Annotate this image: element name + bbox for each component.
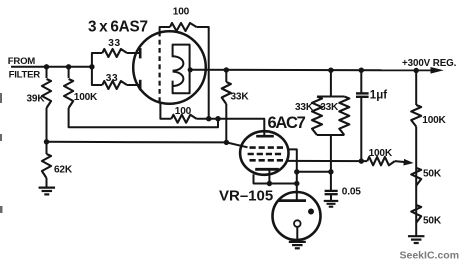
junction dot 1uf rail (359, 68, 364, 73)
wire pair top bracket (317, 96, 344, 98)
wire grid top lead (160, 27, 170, 32)
junction dot 33K rail (224, 67, 229, 72)
resistor R 100K upper right (411, 105, 421, 127)
wire screen to cap line (297, 171, 331, 173)
ground below 0.05 (324, 200, 339, 202)
svg-text:VR–105: VR–105 (219, 188, 273, 205)
svg-text:39K: 39K (27, 93, 46, 104)
capacitor C 1uf plate1 (356, 92, 369, 94)
grid row 1 V2 (250, 146, 285, 149)
wire screen tap V2 (289, 149, 297, 200)
wire grid bottom lead (160, 103, 171, 118)
scan mark b (0, 134, 2, 141)
resistor R 100 top (170, 23, 197, 31)
capacitor C 0.05 plate2 (325, 193, 338, 195)
junction dot 39K top (44, 64, 49, 69)
junction dot pair rail (328, 68, 333, 73)
cathode arc upper V1 (173, 56, 184, 70)
svg-text:100K: 100K (369, 148, 393, 159)
plate bar lower of V1 (139, 80, 142, 90)
junction dot screen node (294, 169, 299, 174)
junction dot cathode join (267, 181, 272, 186)
svg-text:FROM: FROM (8, 56, 36, 67)
svg-text:100K: 100K (422, 115, 446, 126)
tube V2 6AC7 envelope (240, 131, 288, 175)
svg-text:+300V REG.: +300V REG. (402, 58, 457, 69)
arrowhead +300V (431, 67, 444, 74)
junction dot plate line a (206, 116, 211, 121)
svg-text:50K: 50K (423, 215, 442, 226)
wire VR cathode lead (296, 227, 298, 241)
resistor R 50K upper (411, 168, 421, 186)
node FROM FILTER input wire (11, 66, 92, 68)
wire grid tee upper (92, 53, 102, 67)
svg-text:3 x 6AS7: 3 x 6AS7 (88, 19, 148, 36)
junction dot 100K rail (414, 68, 419, 73)
svg-text:100: 100 (175, 106, 192, 117)
wire grid divider line (47, 142, 248, 148)
wire 33 upper to plate (127, 52, 140, 54)
arrowhead wiper (403, 159, 413, 166)
svg-text:SeekIC.com: SeekIC.com (400, 250, 460, 262)
junction dot 33K grid node (224, 140, 229, 145)
junction dot cathode-VR node (294, 181, 299, 186)
svg-text:100K: 100K (74, 92, 98, 103)
wire 100 top right lead (197, 27, 209, 119)
svg-text:0.05: 0.05 (342, 187, 361, 198)
junction dot cathode output (188, 67, 193, 72)
wire 1uf top lead (360, 70, 362, 92)
wire grid tee lower (92, 67, 102, 85)
resistor R 33K single (222, 82, 231, 104)
wire wiper lead (395, 161, 406, 162)
wire suppressor wrap V2 (254, 174, 297, 183)
wire 100K top lead (68, 67, 70, 78)
resistor R 33K pair left (312, 97, 322, 136)
junction dot input tee (89, 64, 94, 69)
svg-text:33: 33 (106, 73, 118, 84)
svg-text:33K: 33K (320, 102, 339, 113)
grid dashed line V1 (159, 32, 161, 104)
plate bar upper of V1 (139, 48, 142, 58)
wire 33K top lead (225, 70, 227, 82)
resistor R 100K left (64, 79, 73, 108)
wire +300V rail (190, 69, 432, 72)
wire 39K top lead (46, 67, 48, 78)
junction dot 100K top (66, 64, 71, 69)
svg-text:50K: 50K (423, 169, 442, 180)
junction dot screen cap node (328, 169, 333, 174)
cathode bar V2 (255, 168, 279, 171)
wire wiper sense line (287, 160, 367, 162)
junction dot plate line b (215, 116, 220, 121)
tube V1 6AS7 envelope (133, 31, 206, 104)
svg-text:33: 33 (108, 38, 120, 49)
resistor R 62K (42, 154, 51, 178)
junction dot divider node (44, 139, 49, 144)
scan mark a (0, 93, 2, 103)
resistor R 39K (42, 79, 51, 108)
cathode frame V1 (173, 45, 190, 94)
wire 100K bleeder line (69, 108, 218, 127)
dot electrode VR (308, 209, 314, 215)
wire 33 lower to plate (127, 84, 140, 86)
wire 33K bottom lead (225, 104, 227, 142)
resistor R 100 bottom (171, 115, 196, 123)
capacitor C 0.05 plate1 (325, 190, 338, 192)
scan mark c (0, 206, 3, 213)
svg-text:62K: 62K (54, 165, 73, 176)
plate bar V2 (256, 135, 274, 138)
cathode terminal circle VR (294, 220, 301, 227)
resistor R 33K pair right (339, 97, 349, 136)
wire 6AC7 plate line (197, 119, 265, 135)
wire pair to screen node (330, 135, 332, 191)
grid row 2 V2 (248, 153, 283, 156)
grid row 3 V2 (250, 159, 285, 162)
wire 100K upper lead (415, 71, 417, 106)
resistor R 33 upper (102, 49, 127, 57)
cathode arc lower V1 (173, 72, 184, 86)
anode bar VR (279, 199, 306, 202)
svg-text:100: 100 (173, 6, 190, 17)
wire pot chain (415, 127, 417, 236)
wire 39K to 62K (46, 108, 48, 154)
wire 1uf bottom lead (360, 97, 362, 161)
wire 0.05 bottom lead (330, 194, 332, 200)
junction dot 1uf bottom (359, 158, 364, 163)
ground below 50K (408, 235, 425, 237)
ground below 62K (39, 187, 56, 189)
resistor R 100K horizontal (367, 157, 395, 165)
svg-text:FILTER: FILTER (9, 69, 41, 80)
wire 62K to ground (46, 178, 48, 187)
wire pair bottom bracket (317, 134, 344, 136)
wire cathode lead V2 (268, 171, 270, 184)
capacitor C 1uf plate2 (356, 96, 369, 98)
resistor R 50K lower (411, 205, 421, 223)
resistor R 33 lower (102, 81, 127, 89)
svg-text:33K: 33K (295, 102, 314, 113)
tube V3 VR-105 envelope (273, 192, 321, 240)
svg-text:33K: 33K (231, 91, 250, 102)
wire pair feed top (330, 70, 332, 96)
svg-text:1μf: 1μf (370, 89, 387, 101)
ground below VR (289, 241, 306, 243)
svg-text:6AC7: 6AC7 (268, 114, 306, 132)
